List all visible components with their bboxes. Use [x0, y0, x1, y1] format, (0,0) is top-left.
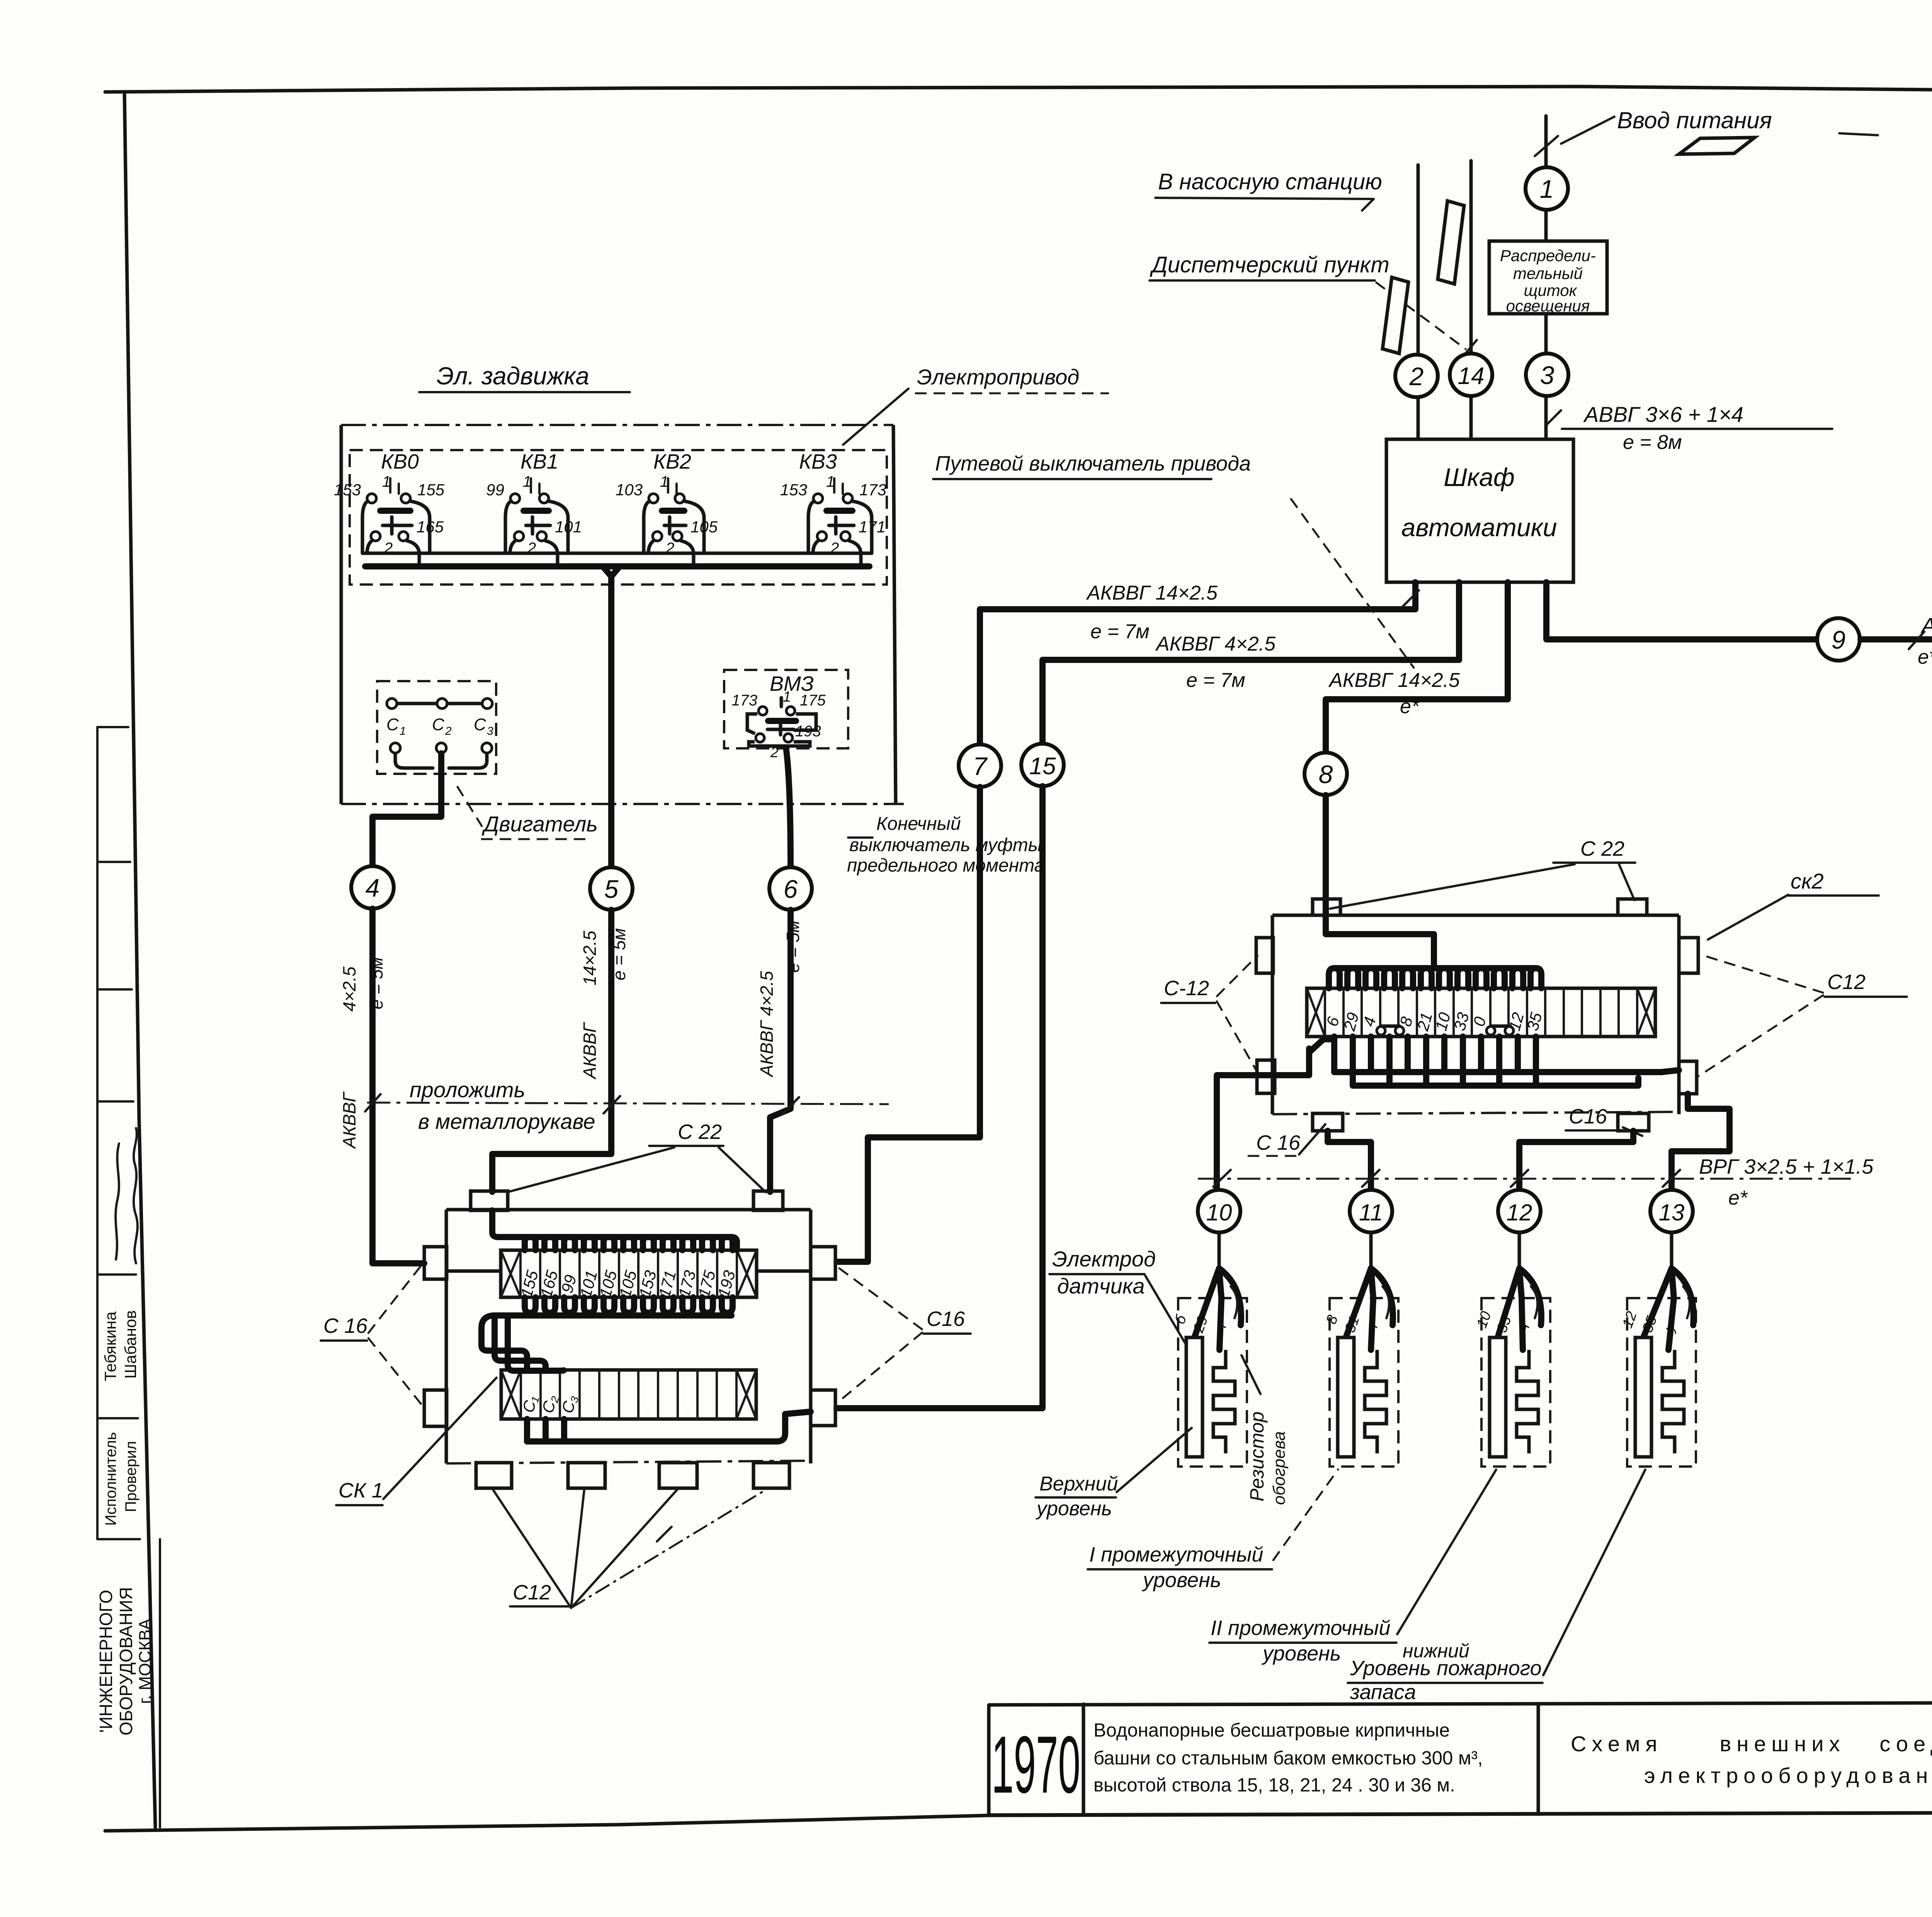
electric drive enclosure box: [341, 424, 893, 426]
svg-text:Шабанов: Шабанов: [121, 1310, 139, 1378]
svg-text:КВ1: КВ1: [520, 450, 558, 473]
stamp column frame: [96, 727, 99, 1539]
svg-text:Электрод: Электрод: [1052, 1247, 1156, 1271]
stamp signatures (handwritten): [116, 1144, 119, 1259]
cable trench dash-dot line: [1198, 1178, 1851, 1180]
node circle 4: [351, 866, 394, 909]
svg-text:I промежуточный: I промежуточный: [1089, 1543, 1263, 1566]
svg-text:тельный: тельный: [1513, 264, 1583, 282]
svg-text:155: 155: [417, 481, 445, 499]
svg-text:Двигатель: Двигатель: [481, 812, 598, 836]
wire cable 6 lower run: [770, 910, 791, 1192]
svg-text:С-12: С-12: [1164, 977, 1209, 1000]
wire cable 13: [1672, 1094, 1730, 1190]
bus junction: [603, 566, 620, 576]
svg-text:2: 2: [770, 744, 779, 761]
wire cable 4 lower run: [372, 909, 424, 1263]
svg-text:5: 5: [604, 875, 619, 903]
svg-text:153: 153: [334, 481, 361, 499]
svg-text:е = 7м: е = 7м: [1090, 620, 1150, 643]
wire circuit 14 (dispatch): [1469, 161, 1473, 439]
svg-text:е = 5м: е = 5м: [609, 928, 629, 980]
svg-text:Конечный: Конечный: [876, 814, 961, 834]
box СК1: [446, 1210, 811, 1463]
svg-text:С16: С16: [927, 1307, 965, 1331]
node circle 15: [1021, 744, 1064, 786]
svg-text:3: 3: [487, 725, 493, 738]
svg-text:103: 103: [616, 481, 643, 499]
svg-text:С16: С16: [1569, 1105, 1607, 1128]
electrode sensor unit at circle 8/31: [1323, 1232, 1398, 1467]
svg-text:Исполнитель: Исполнитель: [102, 1432, 119, 1526]
svg-text:электрооборудования: электрооборудования: [1644, 1763, 1932, 1788]
leader from Путевой выключатель label: [1291, 498, 1414, 668]
svg-text:АКВВГ 4×2.5: АКВВГ 4×2.5: [757, 971, 777, 1078]
СК1 upper strip lower loops and bus: [525, 1297, 536, 1313]
СК2 electrode jumpers: [1377, 1026, 1385, 1035]
cable mark parallelogram (power): [1679, 138, 1755, 154]
svg-text:7: 7: [973, 752, 988, 780]
svg-text:13: 13: [1659, 1200, 1685, 1225]
electrode sensor unit at circle 12/35: [1619, 1232, 1696, 1467]
svg-text:1: 1: [523, 473, 531, 490]
СК1 lower terminal strip: [501, 1370, 756, 1419]
node circle 6: [769, 867, 812, 910]
node circle 14: [1450, 353, 1492, 396]
svg-text:е = 7м: е = 7м: [1186, 669, 1245, 692]
wire cable 7 lower run: [837, 787, 980, 1262]
svg-text:Распредели-: Распредели-: [1500, 246, 1596, 265]
svg-text:е*: е*: [1400, 695, 1420, 718]
svg-text:1: 1: [400, 725, 406, 738]
svg-text:Диспетчерский пункт: Диспетчерский пункт: [1150, 252, 1389, 277]
svg-text:14: 14: [1458, 363, 1485, 389]
svg-text:КВ2: КВ2: [653, 450, 691, 473]
wire cable 15 (АКВВГ 4х2.5 to СК1): [1043, 582, 1459, 744]
svg-text:Резистор: Резистор: [1246, 1412, 1268, 1502]
svg-text:е = 8м: е = 8м: [1623, 431, 1682, 454]
svg-text:4×2.5: 4×2.5: [339, 966, 359, 1011]
svg-text:Ввод питания: Ввод питания: [1617, 107, 1772, 133]
wire cable 10: [1217, 1049, 1309, 1190]
svg-text:АВВГ 3×6 + 1×4: АВВГ 3×6 + 1×4: [1583, 402, 1743, 427]
title block frame: [989, 1701, 1932, 1815]
svg-text:15: 15: [1029, 753, 1056, 780]
svg-text:II промежуточный: II промежуточный: [1211, 1616, 1390, 1640]
СК1 upper strip wire loops and bus: [525, 1237, 536, 1250]
svg-text:9: 9: [1832, 625, 1846, 654]
svg-text:автоматики: автоматики: [1401, 513, 1557, 542]
svg-text:153: 153: [780, 481, 807, 499]
svg-text:АКВВГ 14×2.5: АКВВГ 14×2.5: [1086, 582, 1218, 604]
svg-text:Путевой выключатель привода: Путевой выключатель привода: [935, 452, 1251, 475]
svg-text:С 22: С 22: [1580, 837, 1624, 860]
svg-text:193: 193: [795, 723, 821, 740]
svg-text:г. МОСКВА: г. МОСКВА: [136, 1618, 155, 1704]
svg-text:Проверил: Проверил: [122, 1441, 139, 1512]
svg-text:3: 3: [1540, 361, 1554, 389]
automation cabinet box: [1386, 439, 1573, 582]
svg-text:Схемя внешних соединений: Схемя внешних соединений: [1571, 1732, 1932, 1756]
svg-text:е*: е*: [1728, 1187, 1748, 1209]
electrode sensor unit at circle 10/33: [1474, 1232, 1550, 1467]
ВМЗ contact symbol: [747, 714, 816, 746]
motor terminal box: [377, 681, 496, 774]
СК2 connector bumps: [1313, 899, 1340, 915]
svg-text:Тебякина: Тебякина: [101, 1311, 119, 1381]
svg-text:освещения: освещения: [1506, 297, 1590, 315]
box СК2: [1272, 915, 1679, 1114]
svg-text:12: 12: [1507, 1200, 1532, 1225]
svg-text:КВ3: КВ3: [799, 450, 837, 473]
sheet frame left border: [124, 92, 155, 1827]
svg-text:С: С: [386, 715, 399, 734]
СК1 upper terminal strip: [501, 1250, 757, 1297]
torque limit switch ВМЗ box: [724, 670, 848, 748]
wire cable 11: [1328, 1131, 1371, 1190]
wire ВМЗ to circle 6: [786, 748, 791, 867]
motor winding U-link wires: [395, 753, 433, 768]
svg-text:уровень: уровень: [1261, 1642, 1341, 1665]
wire cable 12: [1519, 1131, 1633, 1190]
СК1 motor wires С1-С3: [481, 1343, 527, 1370]
cable mark parallelogram on line 14: [1438, 201, 1464, 284]
svg-text:1970: 1970: [992, 1719, 1080, 1810]
svg-text:уровень: уровень: [1141, 1569, 1221, 1592]
svg-text:С: С: [432, 715, 445, 734]
svg-text:е = 5м: е = 5м: [366, 957, 386, 1009]
svg-text:Верхний: Верхний: [1039, 1473, 1118, 1495]
wire power input (circuit 1/3): [1544, 116, 1548, 439]
wire cable 8 (АКВВГ 14х2.5 to СК2): [1326, 582, 1508, 753]
svg-text:2: 2: [445, 725, 452, 738]
svg-text:1: 1: [660, 473, 668, 490]
svg-text:10: 10: [1206, 1200, 1232, 1225]
svg-text:С12: С12: [1827, 970, 1866, 994]
sheet frame bottom border: [105, 1811, 1932, 1831]
node circle 13: [1650, 1190, 1693, 1232]
conduit dash-dot line: [367, 1103, 889, 1104]
node circle 12: [1498, 1190, 1541, 1232]
svg-text:Уровень пожарного: Уровень пожарного: [1350, 1657, 1542, 1680]
svg-text:99: 99: [486, 481, 504, 499]
wire cable 9 (АВВГ 3х4+1х2.5 to heater): [1546, 582, 1816, 639]
svg-text:АКВВГ: АКВВГ: [580, 1022, 600, 1080]
cable mark parallelogram on line 2: [1383, 277, 1408, 353]
СК1 connector bumps: [471, 1191, 508, 1210]
node circle 1: [1526, 167, 1568, 210]
limit switch КВ2: [616, 450, 718, 566]
СК2 lower loops and buses: [1331, 1037, 1337, 1072]
node circle 8: [1304, 753, 1347, 795]
svg-text:С: С: [474, 715, 486, 734]
travel switch dashed box: [350, 450, 887, 585]
svg-text:С12: С12: [513, 1581, 551, 1604]
svg-text:С 16: С 16: [323, 1314, 368, 1337]
svg-text:выключатель муфты: выключатель муфты: [849, 835, 1042, 855]
svg-text:в металлорукаве: в металлорукаве: [418, 1109, 595, 1134]
node circle 11: [1350, 1190, 1392, 1232]
svg-text:ск2: ск2: [1791, 869, 1824, 893]
svg-text:14×2.5: 14×2.5: [580, 931, 600, 986]
wire cable 9 right run: [1861, 639, 1932, 693]
svg-text:Шкаф: Шкаф: [1444, 463, 1515, 491]
svg-text:В насосную станцию: В насосную станцию: [1158, 169, 1382, 194]
node circle 3: [1526, 353, 1568, 396]
node circle 10: [1198, 1190, 1240, 1232]
svg-text:1: 1: [382, 473, 391, 490]
svg-text:башни со стальным баком емк: башни со стальным баком емкостью 300 м³,: [1094, 1748, 1483, 1769]
svg-text:1: 1: [1540, 175, 1554, 203]
СК2 upper loops and bus: [1329, 968, 1340, 988]
svg-text:предельного момента: предельного момента: [847, 855, 1044, 876]
tick on power input: [1535, 136, 1558, 156]
electrode sensor unit at circle б/29: [1172, 1232, 1247, 1467]
svg-text:е = 5м: е = 5м: [783, 920, 803, 972]
svg-text:2: 2: [1409, 362, 1424, 391]
sheet frame top border: [105, 87, 1932, 92]
wire junction to circle 5: [608, 576, 614, 867]
switch bus wires: [362, 552, 872, 555]
svg-text:уровень: уровень: [1036, 1497, 1112, 1520]
svg-text:11: 11: [1359, 1200, 1383, 1225]
limit switch КВ3: [780, 450, 886, 566]
svg-text:ВРГ 3×2.5 + 1×1.5: ВРГ 3×2.5 + 1×1.5: [1699, 1155, 1874, 1178]
svg-text:'ИНЖЕНЕРНОГО: 'ИНЖЕНЕРНОГО: [96, 1590, 116, 1733]
svg-text:Эл. задвижка: Эл. задвижка: [437, 362, 589, 390]
svg-text:Водонапорные бесшатровые кир: Водонапорные бесшатровые кирпичные: [1094, 1720, 1450, 1741]
wire cable 5 lower run: [492, 910, 611, 1192]
limit switch КВ0: [334, 450, 445, 566]
svg-text:1: 1: [783, 689, 791, 705]
node circle 9: [1817, 618, 1860, 661]
СК1 lower strip bottom bus: [527, 1419, 564, 1441]
motor bottom terminals: [390, 743, 400, 753]
svg-text:С 16: С 16: [1256, 1131, 1301, 1154]
svg-text:СК 1: СК 1: [338, 1479, 383, 1502]
wire motor lead to circle 4: [372, 753, 441, 866]
svg-text:175: 175: [800, 692, 826, 709]
svg-text:е*: е*: [1918, 646, 1932, 668]
motor top terminals: [392, 702, 487, 705]
svg-text:С 22: С 22: [678, 1120, 722, 1144]
svg-text:датчика: датчика: [1057, 1274, 1145, 1298]
svg-text:4: 4: [366, 874, 380, 902]
wire cable 8 lower run: [1326, 795, 1434, 966]
svg-text:8: 8: [1319, 760, 1333, 789]
СК2 terminal strip: [1307, 988, 1655, 1037]
svg-text:6: 6: [784, 875, 798, 903]
svg-text:173: 173: [859, 481, 886, 499]
svg-text:АКВВГ 14×2.5: АКВВГ 14×2.5: [1328, 669, 1460, 692]
svg-text:АКВВГ: АКВВГ: [339, 1091, 359, 1149]
wire line to pumping station (circuit 2): [1417, 165, 1420, 439]
svg-text:1: 1: [826, 473, 835, 490]
node circle 2: [1395, 355, 1438, 397]
svg-text:обогрева: обогрева: [1270, 1431, 1289, 1505]
svg-text:АКВВГ 4×2.5: АКВВГ 4×2.5: [1155, 633, 1276, 655]
svg-text:высотой ствола 15, 18, 21, 2: высотой ствола 15, 18, 21, 24 . 30 и 36 …: [1094, 1775, 1455, 1796]
lighting distribution panel box: [1489, 241, 1607, 314]
wire cable 15 lower run: [837, 786, 1043, 1408]
node circle 7: [959, 744, 1001, 787]
СК1 side stubs: [447, 1270, 811, 1273]
limit switch КВ1: [486, 450, 582, 566]
svg-text:проложить: проложить: [410, 1077, 525, 1102]
svg-text:Электропривод: Электропривод: [917, 365, 1079, 389]
svg-text:ОБОРУДОВАНИЯ: ОБОРУДОВАНИЯ: [116, 1587, 136, 1735]
node circle 5: [590, 867, 633, 910]
svg-text:173: 173: [731, 692, 757, 709]
wire cable 7 (АКВВГ 14х2.5 to СК1): [980, 582, 1415, 744]
svg-text:КВ0: КВ0: [381, 450, 419, 473]
